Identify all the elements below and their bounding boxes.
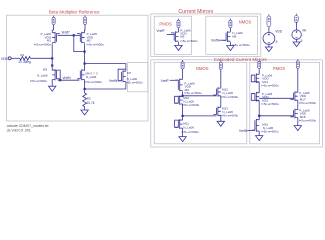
- box Cascoded PMOS inner: [250, 62, 320, 144]
- wire V1 to ground: [268, 44, 270, 47]
- ground below M16: [256, 136, 263, 141]
- svg-text:l=5u w=500u: l=5u w=500u: [30, 79, 48, 83]
- title Cascoded Current Mirrors: [214, 57, 268, 62]
- transistor M17 (PMOS out top): [290, 91, 298, 101]
- ground below V1: [265, 47, 272, 52]
- junction dot M4 source node: [84, 88, 86, 90]
- wire M9 drain to M10 drain: [182, 91, 184, 97]
- labels M3: [30, 68, 48, 83]
- wire VDD to M6 drain: [229, 28, 231, 32]
- junction dot VrefP diode tap: [73, 34, 75, 36]
- transistor M14 (PMOS diode top): [252, 74, 260, 84]
- label NMOS (cascoded): [196, 66, 209, 71]
- svg-text:VrefP: VrefP: [61, 31, 70, 35]
- labels M10: [182, 96, 200, 107]
- wire R2 to ground: [84, 107, 86, 110]
- transistor M1 (PMOS): [52, 32, 60, 43]
- box Current Mirrors outer: [151, 14, 261, 57]
- labels M1: [34, 32, 52, 47]
- ground below R2: [81, 110, 88, 115]
- transistor M12 (NMOS out top): [213, 87, 221, 96]
- svg-text:R1: R1: [20, 53, 24, 57]
- wire R2 top: [84, 89, 86, 93]
- ground below M13: [217, 121, 224, 126]
- svg-text:l=5u w=500u: l=5u w=500u: [34, 43, 52, 47]
- wire VrefN to M6 gate: [219, 39, 226, 41]
- wire V2 to ground: [296, 39, 298, 42]
- svg-text:l=5u w=500u: l=5u w=500u: [262, 83, 280, 87]
- label PMOS (current mirrors): [159, 21, 172, 26]
- transistor M18 (PMOS out bottom): [290, 109, 298, 119]
- wire VDD to M17 source: [297, 68, 299, 92]
- svg-text:l=5u w=500u: l=5u w=500u: [180, 39, 198, 43]
- junction dot VrefN tap: [59, 79, 61, 81]
- svg-text:VrefP: VrefP: [157, 29, 166, 33]
- svg-text:VDD: VDD: [275, 29, 282, 33]
- junction dot cascode top node: [182, 95, 184, 97]
- wire gate rail bottom pair: [183, 115, 217, 117]
- svg-text:l=5u w=500u: l=5u w=500u: [221, 95, 239, 99]
- labels M15: [262, 92, 280, 106]
- svg-text:Beta Multiplier Reference: Beta Multiplier Reference: [49, 10, 100, 15]
- wire VDD flag to V1: [268, 27, 270, 33]
- power flag VDD above M9: [181, 60, 184, 69]
- spice directive include: [6, 124, 48, 128]
- junction dot M2-M4 tap to M7: [84, 63, 86, 65]
- background sheet: [0, 0, 325, 155]
- wire M17 drain to M18 source: [297, 100, 299, 110]
- spice directive dc sweep: [6, 128, 31, 132]
- voltage source V2 VA 5: [292, 30, 301, 39]
- svg-text:M3: M3: [43, 68, 47, 72]
- wire M4 source to R2 node: [84, 80, 86, 89]
- transistor M4 (NMOS): [77, 69, 85, 80]
- label VrefN (nmos mirror): [211, 38, 220, 42]
- svg-text:l=5u w=500u: l=5u w=500u: [182, 130, 200, 134]
- title Beta Multiplier Reference: [49, 10, 100, 15]
- labels M18: [299, 109, 317, 123]
- junction dot pmos cascode node: [258, 115, 260, 117]
- svg-text:l=5u w=500u: l=5u w=500u: [85, 80, 103, 84]
- label VrefP (cascode nmos): [161, 79, 170, 83]
- wire M6 source to ground: [229, 42, 231, 46]
- labels M9: [184, 81, 202, 95]
- labels M6: [232, 31, 250, 47]
- svg-text:l=5u w=500u: l=5u w=500u: [221, 114, 239, 118]
- svg-text:.dc Vdd 0 5 .001: .dc Vdd 0 5 .001: [6, 128, 31, 132]
- wire M15 drain to M16 drain: [258, 101, 260, 120]
- wire M3 diode bracket: [52, 70, 60, 80]
- svg-text:VrefN: VrefN: [62, 76, 71, 80]
- box Cascoded Current Mirrors outer: [151, 60, 323, 147]
- ground below M6: [227, 46, 234, 51]
- wire M2 diode connection: [74, 35, 85, 51]
- power flag VA above V2: [295, 14, 299, 23]
- wire M5 drain to ground: [178, 42, 180, 45]
- svg-text:NMOS: NMOS: [196, 66, 209, 71]
- svg-text:5: 5: [276, 40, 278, 44]
- wire gate rail top pair: [183, 95, 217, 97]
- junction dot M2 drain: [84, 51, 86, 53]
- wire VDD port to R1: [11, 57, 20, 59]
- wire M10 diode bracket: [175, 96, 183, 103]
- svg-text:M6: M6: [232, 34, 236, 38]
- wire gate rail pmos bottom pair: [259, 115, 294, 117]
- wire VDD to M12 drain: [220, 69, 222, 88]
- power flag VDD above M17: [296, 59, 299, 68]
- wire VrefN gate rail (M3-M4): [58, 79, 79, 81]
- power flag VDD above M1: [52, 16, 55, 25]
- labels V2: [301, 28, 307, 43]
- svg-text:l=5u w=500u: l=5u w=500u: [125, 80, 143, 84]
- transistor M9 (PMOS feed): [175, 79, 183, 92]
- wire M4 source to M7 source: [85, 88, 126, 90]
- svg-text:VrefN: VrefN: [211, 38, 220, 42]
- wire M13 source to ground: [220, 115, 222, 121]
- svg-text:l=5u w=500u: l=5u w=500u: [184, 91, 202, 95]
- label VrefN (cascode pmos): [239, 129, 248, 133]
- box Cascoded NMOS inner: [154, 62, 247, 144]
- wire M11 diode bracket: [175, 120, 183, 127]
- svg-text:l=5u w=500u: l=5u w=500u: [261, 130, 279, 134]
- label NMOS (current mirrors): [239, 20, 252, 25]
- box Current Mirrors PMOS inner: [154, 16, 191, 54]
- transistor M15 (PMOS diode bottom): [252, 92, 260, 102]
- label VrefP (beta box): [61, 31, 70, 35]
- labels M14: [262, 74, 280, 88]
- label k = 2: [91, 71, 98, 75]
- node VDD port left: [1, 57, 11, 61]
- resistor R2: [83, 93, 95, 107]
- wire VDD to M1 source: [52, 25, 53, 33]
- label VrefP (pmos mirror): [157, 29, 166, 33]
- transistor M16 (NMOS sink): [252, 119, 260, 132]
- wire VDD to M5 source: [178, 28, 180, 32]
- svg-text:5: 5: [301, 39, 303, 43]
- labels V1: [275, 29, 282, 44]
- label PMOS (cascoded): [273, 66, 286, 71]
- wire M15 diode bracket: [251, 94, 259, 101]
- svg-text:VrefN: VrefN: [239, 129, 248, 133]
- ground symbol M3: [49, 86, 56, 91]
- svg-text:l=5u w=500u: l=5u w=500u: [182, 103, 200, 107]
- transistor M3 (NMOS diode): [52, 69, 60, 80]
- power flag VDD above M12: [219, 60, 222, 69]
- transistor M5 (PMOS mirror): [171, 31, 179, 42]
- transistor M13 (NMOS out bottom): [213, 107, 221, 117]
- svg-text:l=5u w=500u: l=5u w=500u: [87, 43, 105, 47]
- wire M2 node to M7 drain: [85, 64, 126, 71]
- transistor M11 (NMOS diode bottom): [175, 119, 183, 129]
- svg-text:N_La06: N_La06: [86, 75, 97, 79]
- svg-text:l=5u w=500u: l=5u w=500u: [299, 118, 317, 122]
- wire VrefP gate rail: [58, 34, 81, 36]
- transistor M10 (NMOS diode top): [175, 96, 183, 105]
- svg-text:10.3Meg: 10.3Meg: [18, 60, 31, 64]
- title Current Mirrors: [178, 9, 213, 15]
- svg-text:VDD: VDD: [1, 57, 9, 61]
- svg-text:Current Mirrors: Current Mirrors: [178, 9, 213, 15]
- wire gate rail pmos top pair: [259, 97, 294, 99]
- box Current Mirrors NMOS inner: [206, 16, 258, 54]
- wire M1 drain to M3 drain: [51, 43, 53, 70]
- labels M4 value: [85, 75, 103, 84]
- voltage source V1 VDD 5: [263, 33, 275, 45]
- wire M11 source to ground: [182, 128, 184, 137]
- svg-text:22.7k: 22.7k: [87, 101, 95, 105]
- wire VrefP to M5 gate: [167, 34, 174, 36]
- wire M12 source to M13 drain: [220, 96, 222, 108]
- wire M14 drain to M15 source: [258, 82, 260, 93]
- wire R1 to M1 drain column: [30, 57, 52, 59]
- power flag VDD above V1: [267, 14, 271, 26]
- ground below M11: [179, 137, 186, 142]
- junction dot cascode mid node: [182, 115, 184, 117]
- junction dot startup node: [51, 64, 53, 66]
- wire VrefP to M9 gate: [170, 79, 178, 81]
- wire M10 source to M11 drain: [182, 104, 184, 120]
- power flag VDD above M14: [258, 60, 261, 69]
- box around M7 annotation: [128, 62, 148, 91]
- labels M7: [125, 71, 143, 84]
- svg-text:R2: R2: [87, 96, 91, 100]
- power flag VDD above M2: [83, 15, 86, 24]
- junction dot R1 node: [51, 57, 53, 59]
- labels M17: [299, 91, 317, 105]
- svg-text:N_La06: N_La06: [37, 73, 48, 77]
- wire M14 diode bracket: [251, 75, 259, 82]
- wire M7 diode loop: [118, 69, 126, 81]
- wire VDD to M2 source: [84, 24, 86, 32]
- wire VrefN to M16 gate: [247, 129, 255, 131]
- ground below M5: [175, 45, 182, 50]
- svg-text:PMOS: PMOS: [159, 21, 172, 26]
- label M4 name: [85, 71, 89, 75]
- ground below M3: [51, 80, 53, 87]
- labels M12: [221, 88, 239, 99]
- svg-text:N_La06: N_La06: [183, 125, 194, 129]
- labels M16: [261, 123, 279, 134]
- svg-text:l=5u w=500u: l=5u w=500u: [232, 43, 250, 47]
- wire M18 drain to ground: [297, 118, 299, 126]
- ground below V2: [293, 42, 300, 47]
- wire VDD to M14 source: [258, 69, 260, 75]
- svg-text:M7: M7: [127, 71, 131, 75]
- wire VDD to M9 source: [182, 69, 184, 79]
- wire M2 drain to M4 drain: [84, 43, 86, 70]
- svg-text:l=5u w=500u: l=5u w=500u: [262, 102, 280, 106]
- resistor R1: [18, 53, 31, 64]
- labels M2: [87, 32, 105, 47]
- box Beta Multiplier Reference section: [7, 15, 149, 121]
- transistor M7 (NMOS diode startup): [118, 70, 126, 82]
- labels M11: [182, 121, 200, 134]
- transistor M6 (NMOS mirror): [223, 31, 231, 42]
- power flag VDD above M6: [229, 19, 232, 28]
- wire M16 source to ground: [258, 131, 260, 136]
- ground below M18: [294, 126, 301, 131]
- labels M13: [221, 107, 239, 118]
- svg-text:PMOS: PMOS: [273, 66, 286, 71]
- wire VA flag to V2: [295, 22, 297, 30]
- wire M7 source down: [125, 82, 127, 89]
- label VrefN (at M7): [109, 79, 118, 83]
- svg-text:VrefP: VrefP: [161, 79, 170, 83]
- svg-text:l=5u w=500u: l=5u w=500u: [299, 101, 317, 105]
- svg-text:NMOS: NMOS: [239, 20, 252, 25]
- svg-text:VrefN: VrefN: [109, 79, 118, 83]
- label VrefN (beta box): [62, 76, 71, 80]
- transistor M2 (PMOS): [77, 32, 85, 43]
- labels M5: [180, 28, 198, 43]
- power flag VDD above M5: [177, 19, 180, 28]
